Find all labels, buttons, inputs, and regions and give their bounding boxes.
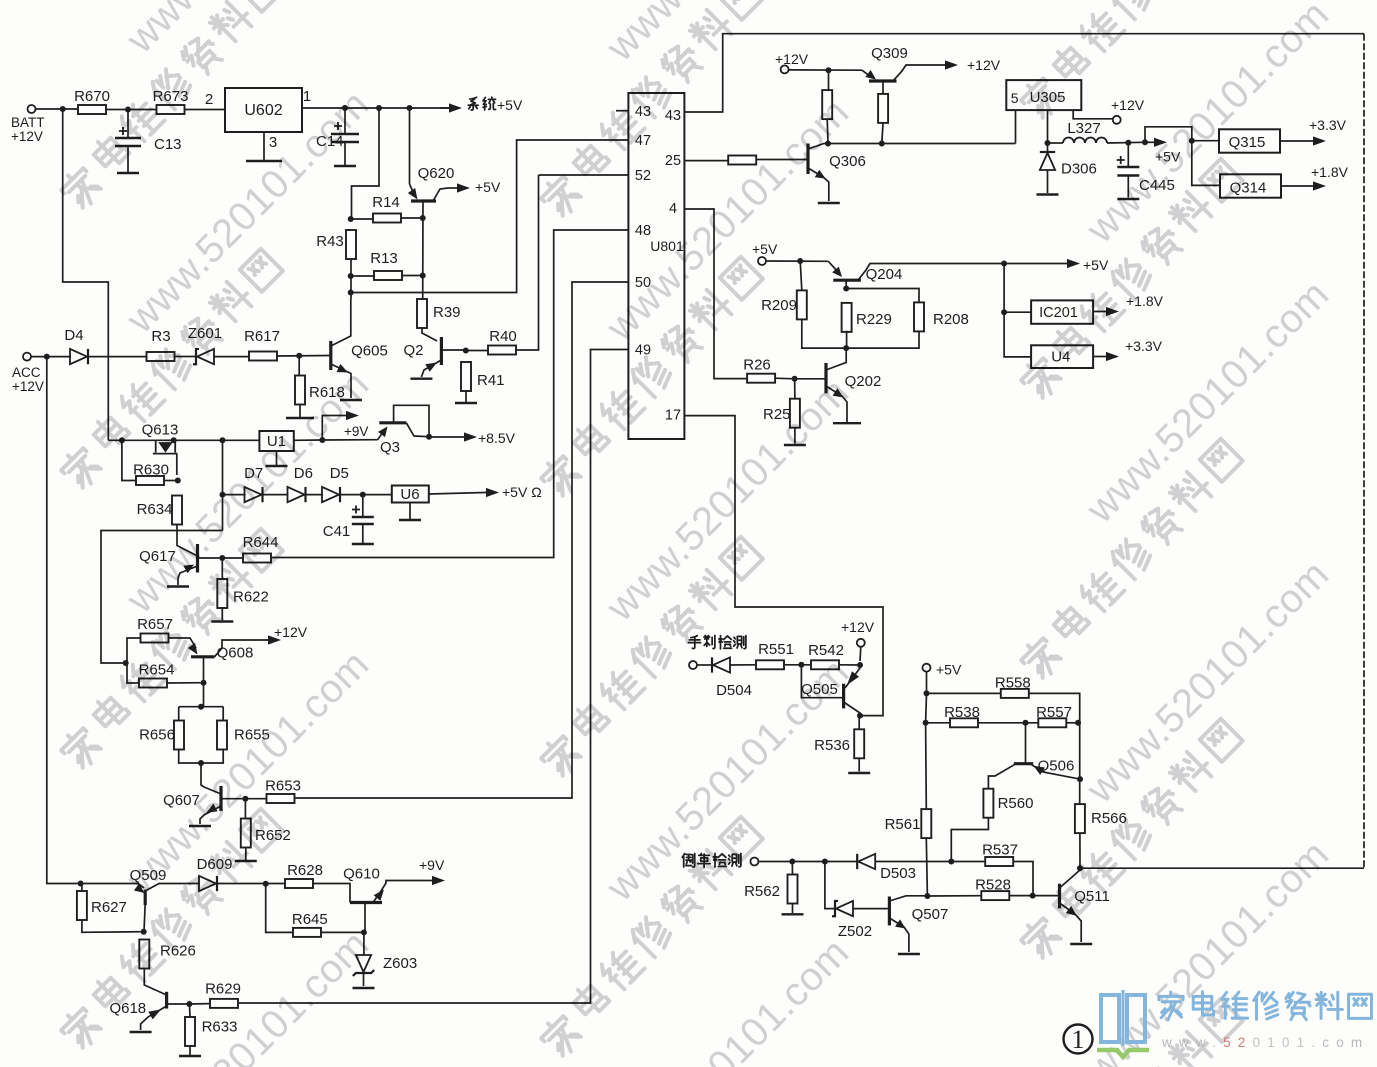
wire resistor down bbox=[826, 119, 829, 143]
wire to C13 bbox=[127, 110, 129, 139]
wire to R622 bbox=[221, 558, 223, 579]
wire R633 down bbox=[189, 1046, 191, 1055]
wire R528 to Q511 bbox=[1009, 895, 1060, 897]
transistor Q204 bar bbox=[833, 279, 861, 282]
wire D306 down bbox=[1047, 170, 1049, 193]
ground C41 bbox=[352, 543, 374, 545]
svg-text:R538: R538 bbox=[944, 704, 980, 721]
wire Q202 collector bbox=[826, 348, 846, 370]
wire R561 down bbox=[926, 838, 927, 896]
wire to L327 bbox=[1048, 142, 1064, 144]
resistor R14 bbox=[372, 194, 401, 223]
transistor Q202 bar bbox=[824, 363, 827, 393]
node +9V branch bbox=[319, 437, 325, 443]
wire R14 to base line bbox=[401, 217, 423, 219]
svg-text:+9V: +9V bbox=[419, 857, 445, 873]
svg-text:+12V: +12V bbox=[12, 379, 44, 394]
wire to R629 bbox=[189, 1003, 210, 1005]
svg-text:Q306: Q306 bbox=[829, 153, 866, 170]
svg-text:+9V: +9V bbox=[344, 424, 368, 439]
svg-text:Q507: Q507 bbox=[912, 906, 949, 923]
wire Q605 collector bbox=[331, 299, 351, 346]
wire R645 right bbox=[321, 931, 364, 933]
resistor R41 bbox=[461, 362, 505, 391]
wire Q204 base down bbox=[845, 280, 847, 288]
svg-text:R670: R670 bbox=[74, 88, 110, 105]
ground R41 bbox=[455, 402, 477, 404]
wire D609 to R628 bbox=[217, 883, 285, 885]
svg-text:IC201: IC201 bbox=[1039, 305, 1078, 321]
resistor R630 bbox=[133, 462, 169, 486]
svg-text:R551: R551 bbox=[758, 641, 794, 658]
IC U4 bbox=[1031, 345, 1093, 368]
wire R654 to base bbox=[167, 682, 204, 684]
wire base to R656/R655 bbox=[203, 683, 205, 707]
diode D504 bbox=[713, 657, 730, 672]
ground C14 bbox=[334, 165, 356, 167]
ground Q507 bbox=[898, 953, 920, 955]
terminal +12V right bbox=[1113, 116, 1121, 124]
svg-text:R537: R537 bbox=[982, 842, 1018, 859]
capacitor C445 bbox=[1117, 167, 1139, 176]
node R645/Z603 bbox=[361, 929, 367, 935]
ground Q306 bbox=[818, 202, 840, 204]
wire +5V rail bbox=[766, 260, 828, 262]
wire Q610 collector down bbox=[364, 903, 366, 933]
svg-text:48: 48 bbox=[635, 223, 651, 239]
svg-text:R628: R628 bbox=[287, 862, 323, 879]
svg-text:2: 2 bbox=[205, 91, 213, 108]
wire resistor down bbox=[882, 122, 883, 143]
terminal BATT +12V bbox=[28, 105, 36, 113]
wire down bbox=[925, 693, 928, 722]
wire Q607 base bbox=[221, 798, 245, 800]
resistor R3 bbox=[147, 328, 175, 361]
node Q605 base/R618 bbox=[296, 353, 302, 359]
wire R229 down bbox=[846, 331, 848, 348]
IC IC201 bbox=[1031, 300, 1093, 323]
svg-text:3: 3 bbox=[269, 134, 277, 151]
diode D4 bbox=[70, 349, 87, 364]
svg-text:D503: D503 bbox=[880, 865, 916, 882]
IC U1 bbox=[259, 431, 293, 451]
wire R26 to base bbox=[775, 377, 795, 380]
resistor R25pin resistor bbox=[728, 156, 756, 165]
resistor R627 bbox=[77, 891, 127, 920]
wire to Z502 bbox=[825, 862, 835, 909]
resistor R13 bbox=[370, 250, 402, 280]
node +5V takeoff bbox=[1142, 139, 1148, 145]
wire U1 to Q3 bbox=[294, 439, 323, 441]
wire to Q3 emitter bbox=[322, 439, 377, 441]
wire R25 down bbox=[794, 428, 796, 443]
node R14/Q620 base bbox=[420, 215, 426, 221]
svg-text:R627: R627 bbox=[91, 899, 127, 916]
svg-text:D4: D4 bbox=[64, 327, 83, 344]
svg-text:R39: R39 bbox=[433, 304, 461, 321]
svg-text:4: 4 bbox=[669, 201, 677, 217]
svg-text:R26: R26 bbox=[743, 357, 771, 374]
svg-text:L327: L327 bbox=[1067, 120, 1100, 137]
resistor R629 bbox=[205, 981, 241, 1008]
svg-text:43: 43 bbox=[665, 108, 681, 124]
wire D5 to U6 bbox=[340, 494, 392, 496]
resistor R655 bbox=[217, 721, 270, 750]
node bbox=[879, 141, 885, 147]
node R209 top bbox=[797, 258, 803, 264]
wire Q618 base bbox=[167, 1003, 190, 1005]
node Q507 collector bbox=[924, 893, 930, 899]
ground Q605 bbox=[340, 399, 362, 401]
wire Q507 emitter bbox=[889, 918, 909, 952]
wire to Q314 bbox=[1192, 141, 1220, 186]
svg-text:5: 5 bbox=[1011, 90, 1019, 106]
svg-text:www.520101.com: www.520101.com bbox=[1161, 1035, 1369, 1050]
transistor Q3 bar bbox=[379, 421, 406, 424]
wire pin52 bbox=[539, 174, 629, 176]
resistor R634 bbox=[137, 496, 182, 525]
svg-text:U602: U602 bbox=[244, 102, 282, 119]
wire parallel bottom bbox=[179, 750, 224, 764]
svg-text:Q2: Q2 bbox=[403, 342, 423, 359]
svg-text:+1.8V: +1.8V bbox=[1311, 164, 1349, 180]
transistor Q605 bar bbox=[329, 341, 332, 370]
svg-text:Q315: Q315 bbox=[1229, 134, 1266, 151]
wire to R618 bbox=[298, 356, 300, 376]
node R229 top bbox=[843, 286, 849, 292]
wire to R536 bbox=[858, 716, 860, 729]
wire Q617 to node bbox=[198, 557, 223, 559]
node IC201 feed bbox=[1001, 261, 1007, 267]
transistor Q511 bar bbox=[1058, 884, 1061, 909]
wire Q3 emitter diag bbox=[378, 432, 383, 440]
svg-text:Z603: Z603 bbox=[383, 955, 417, 972]
wire to R645 bbox=[266, 884, 293, 933]
wire U1 down bbox=[276, 451, 278, 465]
diode D5 bbox=[322, 487, 339, 502]
wire R617 to Q605 base bbox=[277, 355, 331, 358]
wire R657 to Q608 emitter bbox=[169, 638, 197, 648]
svg-text:R560: R560 bbox=[998, 795, 1034, 812]
node BATT branch bbox=[60, 106, 66, 112]
svg-text:R558: R558 bbox=[995, 675, 1031, 692]
wire pin47 to R43 node bbox=[351, 140, 629, 293]
wire to R209 bbox=[800, 261, 802, 290]
svg-text:R626: R626 bbox=[160, 943, 196, 960]
node C13 top bbox=[125, 107, 131, 113]
resistor R538 bbox=[944, 704, 980, 727]
wire Z601 to R617 bbox=[214, 356, 249, 358]
wire R3 to Z601 bbox=[175, 356, 196, 358]
wire Q505 emitter bbox=[845, 665, 860, 688]
zener Z601 bbox=[197, 349, 214, 364]
wire D504 to R551 bbox=[730, 664, 755, 666]
svg-text:R13: R13 bbox=[370, 250, 398, 267]
svg-text:+5V: +5V bbox=[475, 179, 501, 195]
node R538 left bbox=[923, 720, 929, 726]
wire D6 to D5 bbox=[306, 494, 323, 496]
ground R536 bbox=[848, 772, 870, 774]
node R654/Q608 bbox=[201, 680, 207, 686]
ground C445 bbox=[1117, 198, 1139, 200]
wire to R561 bbox=[925, 723, 928, 810]
wire Q617 emitter bbox=[178, 566, 198, 585]
wire BATT to R670 bbox=[36, 108, 79, 110]
resistor R39 bbox=[417, 299, 461, 328]
wire to R13 bbox=[351, 275, 374, 277]
node IC201 branch bbox=[1001, 309, 1007, 315]
svg-text:D306: D306 bbox=[1061, 161, 1097, 178]
resistor R626 bbox=[139, 940, 196, 969]
wire Q306 base bbox=[755, 159, 808, 161]
terminal +12V top bbox=[781, 65, 789, 73]
resistor R645 bbox=[292, 911, 328, 937]
node unnamed R top bbox=[826, 67, 832, 73]
ground U6 bbox=[399, 519, 421, 521]
node Q3 out bbox=[426, 434, 432, 440]
transistor Q309 bar bbox=[869, 79, 897, 82]
wire Q605 emitter bbox=[331, 364, 351, 398]
wire to R14 bbox=[351, 218, 373, 220]
svg-text:R617: R617 bbox=[244, 328, 280, 345]
wire to R40 bbox=[466, 350, 488, 352]
resistor R560 bbox=[983, 789, 1033, 818]
wire Q306 emitter bbox=[808, 168, 829, 201]
arrow +8.5V bbox=[429, 436, 464, 438]
node pin47 line bbox=[348, 290, 354, 296]
svg-text:R536: R536 bbox=[814, 737, 850, 754]
svg-text:C41: C41 bbox=[323, 523, 351, 540]
svg-text:Q613: Q613 bbox=[142, 422, 179, 439]
wire Q511 emitter bbox=[1060, 903, 1082, 942]
wire U305 pin5 down bbox=[1015, 110, 1017, 143]
node R536 top bbox=[857, 713, 863, 719]
diode D609 bbox=[199, 876, 216, 891]
resistor R528 bbox=[975, 877, 1011, 901]
node R13 left bbox=[348, 273, 354, 279]
IC U602 bbox=[225, 88, 302, 132]
transistor Q618 bar bbox=[165, 992, 168, 1009]
wire BATT down to Q613 row bbox=[63, 109, 109, 440]
resistor R562 bbox=[744, 875, 797, 904]
transistor Q505 bar bbox=[842, 684, 845, 709]
wire to Q315 bbox=[1192, 140, 1219, 142]
svg-text:BATT: BATT bbox=[11, 115, 45, 130]
ground R562 bbox=[782, 913, 804, 915]
wire D503 right bbox=[875, 861, 951, 863]
resistor R566 bbox=[1075, 804, 1127, 833]
svg-text:Q309: Q309 bbox=[871, 45, 908, 62]
svg-text:+5V: +5V bbox=[1083, 257, 1109, 273]
svg-text:D504: D504 bbox=[716, 682, 752, 699]
wire rail to Q620 emitter bbox=[409, 108, 411, 184]
wire over-route bbox=[1145, 127, 1192, 143]
svg-text:+12V: +12V bbox=[967, 57, 1001, 73]
wire Q610 emitter to +9V bbox=[373, 881, 427, 903]
resistor R652 bbox=[241, 819, 291, 848]
wire Q607 emitter bbox=[200, 806, 221, 824]
resistor R657 bbox=[137, 616, 173, 643]
svg-text:U6: U6 bbox=[400, 486, 419, 503]
capacitor C41 bbox=[352, 517, 374, 524]
IC U801 bbox=[628, 93, 684, 439]
resistor R654 bbox=[139, 662, 175, 688]
node R629/R633 bbox=[186, 1001, 192, 1007]
transistor Q620 bar bbox=[411, 199, 436, 202]
resistor R (unlabeled) bbox=[878, 94, 888, 123]
wire R634 to Q617 bbox=[177, 525, 198, 557]
wire to R558 bbox=[927, 692, 1002, 694]
wire R542 right bbox=[839, 664, 860, 666]
wire feed column bbox=[1004, 264, 1031, 357]
wire R39 to Q2 collector bbox=[422, 328, 437, 341]
node R656/R655 top bbox=[198, 704, 204, 710]
svg-text:+5V: +5V bbox=[936, 662, 962, 678]
IC Q314 bbox=[1220, 174, 1281, 197]
arrow +3.3V out bbox=[1093, 356, 1106, 358]
node bbox=[825, 141, 831, 147]
ground Z603 bbox=[353, 987, 375, 989]
wire Q607 collector diag bbox=[204, 787, 221, 794]
zener Z603 bbox=[356, 955, 371, 972]
wire bbox=[81, 884, 83, 892]
resistor R673 bbox=[153, 88, 189, 114]
ground Q202 bbox=[833, 422, 861, 424]
wire R652 down bbox=[245, 847, 247, 860]
svg-text:+8.5V: +8.5V bbox=[478, 430, 516, 446]
svg-text:R40: R40 bbox=[489, 328, 517, 345]
wire to U1 bbox=[223, 439, 260, 441]
svg-text:25: 25 bbox=[665, 153, 681, 169]
wire Q309 base down bbox=[882, 81, 884, 95]
wire to R566 bbox=[1079, 723, 1081, 804]
wire Q618 emitter bbox=[141, 1006, 167, 1030]
arrow Q620 +5V out bbox=[448, 187, 457, 189]
wire to R538 bbox=[926, 722, 950, 724]
terminal +5V bbox=[758, 257, 766, 265]
svg-text:R629: R629 bbox=[205, 981, 241, 998]
wire R630 right bbox=[164, 480, 178, 482]
svg-text:R208: R208 bbox=[933, 311, 969, 328]
resistor R (unlabeled) bbox=[822, 90, 832, 119]
wire D4 to R3 bbox=[88, 356, 146, 358]
arrow +5V ohm bbox=[485, 492, 486, 494]
svg-text:Q608: Q608 bbox=[217, 645, 254, 662]
wire to resistor bbox=[828, 70, 830, 90]
wire base loop bbox=[801, 665, 843, 698]
wire R557 right bbox=[1067, 722, 1080, 724]
node R657/R654 bbox=[123, 660, 129, 666]
resistor R209 bbox=[761, 290, 807, 319]
svg-text:+12V: +12V bbox=[775, 51, 809, 67]
node Q607/R653/R652 bbox=[242, 796, 248, 802]
svg-text:1: 1 bbox=[303, 88, 311, 105]
wire pin48 to R644 bbox=[271, 230, 628, 558]
capacitor C13 bbox=[115, 138, 141, 146]
wire pin4 to R26 bbox=[684, 209, 747, 379]
arrow to system +5V bbox=[440, 107, 449, 109]
wire Z603 down bbox=[363, 973, 365, 986]
node Q506 base bbox=[1023, 720, 1029, 726]
node Q617/R644/R622 bbox=[219, 555, 225, 561]
logo text 家电维修资料网 bbox=[1159, 992, 1183, 1020]
wire Q204 collector rail bbox=[858, 264, 1067, 281]
wire bbox=[178, 707, 180, 721]
ground R633 bbox=[179, 1055, 201, 1057]
ground R622 bbox=[211, 620, 233, 622]
ground Q2 bbox=[410, 378, 432, 380]
node R43 feed bbox=[376, 105, 382, 111]
wire Q509 base down bbox=[144, 903, 145, 932]
wire Q505 collector bbox=[844, 702, 860, 716]
terminal +5V br bbox=[923, 664, 931, 672]
wire R566 down bbox=[1079, 834, 1081, 869]
svg-text:R41: R41 bbox=[477, 372, 505, 389]
wire to R25 bbox=[794, 379, 796, 399]
svg-text:R528: R528 bbox=[975, 877, 1011, 894]
wire to right frame bbox=[1080, 867, 1364, 869]
wire R41 down bbox=[465, 391, 467, 402]
resistor R644 bbox=[243, 534, 279, 563]
node ACC branch bbox=[44, 354, 50, 360]
thyristor Q613 bbox=[153, 440, 177, 453]
arrow +3.3V bbox=[1280, 140, 1313, 142]
wire L327 right bbox=[1107, 141, 1145, 144]
wire to Q613 bbox=[108, 439, 155, 441]
wire to R562 bbox=[791, 862, 793, 876]
wire Q608 base down bbox=[203, 657, 205, 683]
terminal reverse bbox=[750, 858, 758, 866]
wire pin17 to Q505 bbox=[684, 416, 883, 716]
wire to Z603 bbox=[363, 932, 365, 955]
svg-text:R634: R634 bbox=[137, 501, 173, 518]
wire R40 to pin52 bbox=[516, 175, 539, 350]
svg-text:D5: D5 bbox=[330, 465, 349, 482]
resistor R537 bbox=[982, 842, 1018, 867]
resistor R628 bbox=[285, 862, 323, 888]
node R558 left bbox=[924, 690, 930, 696]
wire to D504 bbox=[697, 664, 712, 666]
svg-text:+5V: +5V bbox=[752, 241, 778, 257]
node C41 top bbox=[360, 492, 366, 498]
node Q613 right bbox=[171, 437, 177, 443]
wire to R657 bbox=[127, 638, 141, 663]
IC U6 bbox=[392, 486, 429, 504]
wire rail to R43 top bbox=[352, 108, 380, 219]
svg-text:Q204: Q204 bbox=[866, 266, 903, 283]
wire R622 down bbox=[221, 608, 223, 620]
arrow +5V bbox=[1145, 141, 1154, 143]
wire R618 down bbox=[299, 404, 301, 417]
svg-text:Q620: Q620 bbox=[418, 165, 455, 182]
transistor Q306 bar bbox=[806, 144, 809, 175]
wire ACC down to Q509 bbox=[47, 357, 81, 884]
node +12V/Q505 bbox=[857, 662, 863, 668]
resistor R656 bbox=[139, 721, 184, 750]
wire Q620 base down bbox=[422, 202, 424, 299]
resistor R43 bbox=[316, 230, 356, 259]
label 倒车检测 bbox=[682, 854, 694, 867]
svg-text:+12V: +12V bbox=[274, 624, 308, 640]
wire +9V arrow stem bbox=[322, 416, 345, 441]
wire to C445 bbox=[1127, 143, 1129, 167]
IC U305 bbox=[1006, 80, 1081, 110]
svg-text:52: 52 bbox=[635, 168, 651, 184]
terminal handbrake bbox=[689, 661, 697, 669]
page number circled 1 bbox=[1064, 1025, 1093, 1054]
wire C41 down bbox=[362, 524, 364, 543]
wire to R644 bbox=[222, 557, 242, 559]
